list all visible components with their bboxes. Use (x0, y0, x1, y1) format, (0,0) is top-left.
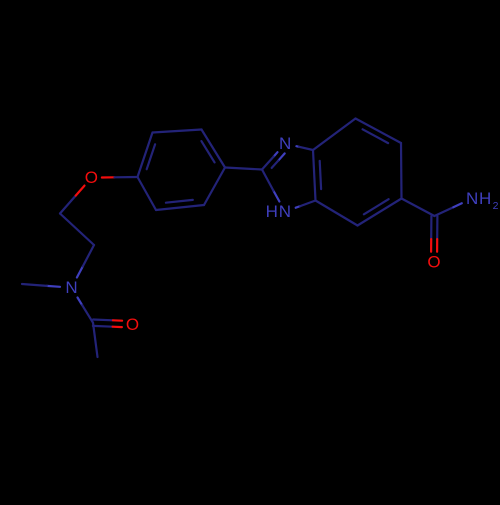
bond N-CH2a (77, 266, 83, 277)
svg-text:2: 2 (493, 200, 499, 212)
benzo fused ring (313, 150, 316, 201)
bond N3-C3a (296, 145, 299, 148)
svg-text:H: H (479, 189, 491, 208)
bond CH2b-O (60, 196, 76, 214)
bond N-CH3 (47, 285, 60, 288)
bond N-C(=O) (78, 298, 83, 306)
bond N1-C2 (273, 191, 279, 202)
bond O-C1 (102, 176, 115, 178)
svg-text:H: H (266, 202, 278, 221)
bond C6-amC (402, 199, 435, 217)
bond C4p-C2 (225, 168, 262, 170)
svg-text:N: N (65, 278, 77, 297)
benzene ring center (138, 133, 153, 178)
svg-text:N: N (279, 134, 291, 153)
svg-text:N: N (466, 189, 478, 208)
imidazole C2=N3 (274, 152, 278, 156)
svg-text:N: N (279, 202, 291, 221)
bond C7a-N1 (296, 206, 301, 208)
bond C-CH3 acetyl (93, 323, 98, 357)
svg-text:O: O (427, 253, 440, 272)
bond CH2a-CH2b (60, 214, 94, 246)
svg-text:O: O (85, 168, 98, 187)
svg-text:O: O (126, 315, 139, 334)
acetyl C=O (93, 325, 113, 328)
bond amC-NH2 (434, 207, 453, 216)
amide C=O (430, 216, 432, 239)
